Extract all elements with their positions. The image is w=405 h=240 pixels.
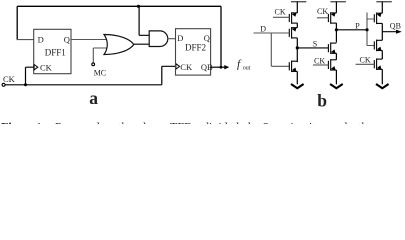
wire branch1 mid1 [296,23,298,28]
svg-text:TFF: TFF [170,120,191,125]
wire gate M4 [317,17,329,19]
svg-text:S: S [313,40,317,49]
or-gate U1 [104,35,134,55]
svg-text:CK: CK [314,57,325,66]
node P junction [335,28,338,31]
output arrow QB [396,30,402,34]
and-gate U2 [149,31,168,47]
transistor M5 (gate S) [328,42,336,54]
wire right drop from top rail to QB node [220,6,222,67]
svg-text:by 2: by 2 [248,120,269,125]
svg-text:b: b [317,91,327,111]
transistor M8 (gate P) [374,40,382,52]
svg-text:MC: MC [94,68,106,77]
arrow on M1 drain [292,12,297,17]
svg-text:P: P [355,21,360,30]
node S junction [296,46,299,49]
wire CK rail [5,84,162,86]
arrow on M8 source [377,47,382,52]
wire branch3 mid [381,51,383,60]
wire branch1 node S segment [296,38,298,62]
svg-text:DFF2: DFF2 [185,43,206,53]
wire gate M9 [356,63,375,65]
flip-flop DFF1 box [34,29,71,73]
wire branch2 node P segment [335,23,337,42]
supply rail branch 1 [291,1,306,3]
wire branch3 output segment [381,23,383,40]
wire gate M6 [313,64,328,66]
svg-text:the: the [118,120,133,125]
arrow on M2 drain [292,27,297,32]
wire left drop from top rail to D input [16,6,18,39]
svg-text:a: a [89,88,98,108]
transistor M6 (gate CK) [328,59,336,71]
wire branch3 to ground [381,69,383,84]
wire feedback top rail from QB node to D of DFF1 [17,5,221,7]
arrow on M3 source [292,68,297,73]
wire CK up to DFF2 clock pin [162,66,176,85]
svg-text:CK: CK [317,7,328,16]
wire branch1 top [296,2,298,13]
wire inverter gate vertical [367,13,374,46]
svg-text:CK: CK [40,62,53,72]
clock edge triangle of DFF2 [176,64,180,69]
arrow on M7 drain [377,13,382,18]
supply rail branch 2 [330,1,346,3]
svg-text:CK: CK [360,56,371,65]
svg-text:Q: Q [204,33,210,43]
transistor M4 (gate CK) [328,12,336,24]
wire D to gate of M3 [271,33,289,66]
wire branch2 to ground [335,70,337,84]
svg-text:1.: 1. [36,120,45,125]
flip-flop DFF2 box [176,29,211,75]
transistor M2 (gate D) [289,27,297,39]
arrow on M4 drain [331,12,336,17]
svg-text:and: and [330,120,347,125]
output arrow fout [224,65,229,69]
node MC input terminal [92,63,95,66]
node P junction at inverter input [365,28,368,31]
supply rail branch 3 [376,1,392,3]
arrow on M6 source [331,66,336,71]
svg-text:D: D [38,34,44,44]
svg-text:CK: CK [180,62,193,72]
svg-text:divided: divided [203,120,239,125]
wire Q of DFF1 to OR gate [71,39,109,41]
svg-text:the: the [358,120,373,125]
node junction QB feedback [220,66,223,69]
wire MC to OR gate lower input [93,48,108,63]
wire branch3 top [381,2,383,14]
svg-text:low: low [143,120,161,125]
wire gate M1 [273,16,289,18]
svg-text:DFF1: DFF1 [45,47,66,57]
svg-text:CK: CK [275,7,286,16]
node CK terminal circle [2,83,5,86]
wire branch1 to ground [296,71,298,84]
svg-text:D: D [177,33,183,43]
svg-text:CK: CK [3,74,16,84]
node junction on top rail feeding AND gate [137,5,140,8]
svg-text:Fig.: Fig. [1,120,21,125]
wire drop from top rail junction to AND gate input A [139,6,149,35]
wire D input of DFF1 [17,39,34,41]
wire AND output to D of DFF2 [168,38,176,40]
ground branch 2 [330,84,343,88]
transistor M7 (gate P) [374,13,382,25]
arrow on M5 source [331,49,336,54]
transistor M3 (gate D) [289,61,297,73]
transistor M1 (gate CK) [289,12,297,24]
transistor M9 (gate CK) [374,58,382,70]
wire branch2 mid [335,53,337,60]
wire OR output to AND gate input B [134,43,149,45]
wire QB of DFF2 to output arrow [211,66,225,68]
arrow on M9 source [377,65,382,70]
wire node P to inverter gates [336,29,367,31]
svg-text:QB: QB [390,22,401,31]
svg-text:Q: Q [64,34,70,44]
clock edge triangle of DFF1 [34,65,38,70]
svg-text:Proposed: Proposed [55,120,100,125]
wire gate M2 from D input [254,32,290,34]
wire QB output [382,31,396,33]
wire CK up to DFF1 clock pin [26,67,34,85]
ground branch 3 [376,84,389,88]
svg-text:circuit: circuit [285,120,316,125]
node junction CK rail to DFF1 [24,83,27,86]
svg-text:D: D [260,25,266,34]
wire branch2 top [335,2,337,13]
ground branch 1 [291,84,304,88]
svg-text:out: out [243,65,251,71]
wire node S to gate M5 [297,47,328,49]
